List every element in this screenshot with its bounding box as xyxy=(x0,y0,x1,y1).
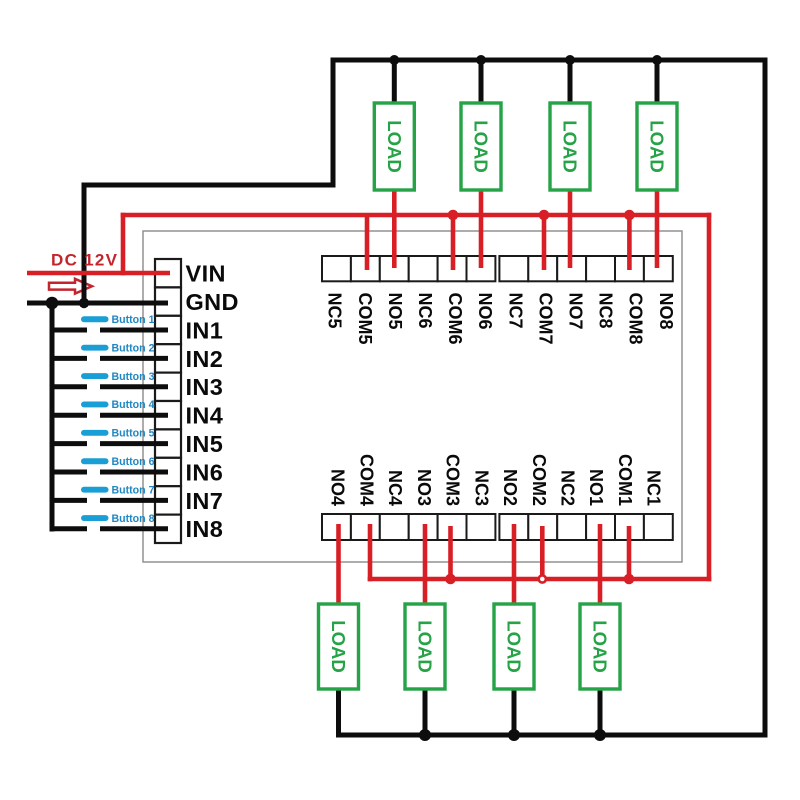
load box LOAD6 xyxy=(461,103,501,190)
svg-text:LOAD: LOAD xyxy=(384,120,405,172)
load box LOAD7 xyxy=(550,103,590,190)
svg-text:IN3: IN3 xyxy=(186,374,224,400)
svg-text:IN1: IN1 xyxy=(186,317,224,343)
svg-text:GND: GND xyxy=(186,289,239,315)
wire: button 8 left lead xyxy=(52,526,87,531)
push button 8 xyxy=(81,513,155,525)
wire: right side supply drop xyxy=(763,58,768,738)
wire: NO1 to LOAD xyxy=(598,524,603,605)
wire: button 2 lead to IN2 xyxy=(100,356,168,361)
svg-text:LOAD: LOAD xyxy=(471,120,492,172)
junction: bottom COM bus / COM2 (open) xyxy=(539,575,546,582)
push button 2 xyxy=(81,342,155,354)
junction: top bus / LOAD6 xyxy=(476,55,486,65)
svg-text:COM5: COM5 xyxy=(355,293,375,345)
pin labels VIN GND IN1-IN8 xyxy=(186,261,239,543)
svg-text:Button 7: Button 7 xyxy=(112,484,155,496)
push button 1 xyxy=(81,314,155,326)
wire: LOAD to NO5 xyxy=(392,190,397,268)
junction: top COM bus / COM6 xyxy=(448,210,459,221)
svg-text:COM3: COM3 xyxy=(443,454,463,506)
wire: button 5 lead to IN5 xyxy=(100,441,168,446)
junction: bottom bus / LOAD3 xyxy=(419,729,431,741)
svg-text:LOAD: LOAD xyxy=(504,620,525,672)
load box LOAD4 xyxy=(319,604,359,689)
wire: +12V lead to VIN xyxy=(27,271,170,276)
junction: top bus / LOAD8 xyxy=(652,55,662,65)
wire: supply stub to LOAD7 top xyxy=(568,60,573,104)
wire: button 4 lead to IN4 xyxy=(100,413,168,418)
wire: COM7 stub xyxy=(542,215,547,270)
wire: GND riser to top-left corner xyxy=(82,183,87,306)
svg-text:NC6: NC6 xyxy=(415,293,435,329)
wire: COM3 stub xyxy=(448,526,453,579)
wire: button 5 left lead xyxy=(52,441,87,446)
load box LOAD5 xyxy=(374,103,414,190)
wire: LOAD to NO7 xyxy=(568,190,573,268)
wire: button 2 left lead xyxy=(52,356,87,361)
wire: supply stub to LOAD5 top xyxy=(392,60,397,104)
svg-text:COM1: COM1 xyxy=(615,454,635,506)
svg-text:Button 6: Button 6 xyxy=(112,456,155,468)
svg-text:NC7: NC7 xyxy=(505,293,525,329)
load box LOAD3 xyxy=(405,604,445,689)
push button 5 xyxy=(81,428,155,440)
wire: COM5 stub xyxy=(365,215,370,270)
push button 4 xyxy=(81,399,155,411)
push button 3 xyxy=(81,371,155,383)
svg-text:NC1: NC1 xyxy=(644,470,664,506)
wire: supply stub to LOAD6 top xyxy=(479,60,484,104)
wire: riser to top NO bus xyxy=(331,58,336,188)
svg-text:Button 2: Button 2 xyxy=(112,342,155,354)
wire: button 1 lead to IN1 xyxy=(100,328,168,333)
svg-text:NC3: NC3 xyxy=(471,470,491,506)
wire: COM6 stub xyxy=(451,215,456,270)
wire: +12V riser xyxy=(121,213,126,276)
wire: button 8 lead to IN8 xyxy=(100,526,168,531)
wire: COM1 stub xyxy=(627,526,632,579)
svg-text:IN4: IN4 xyxy=(186,403,224,429)
top terminal labels NC5-NO8 xyxy=(325,293,676,345)
wire: bottom COM bus xyxy=(368,577,712,582)
junction: bottom COM bus / COM1 xyxy=(624,574,635,585)
svg-text:Button 4: Button 4 xyxy=(112,399,155,411)
junction: top bus / LOAD7 xyxy=(565,55,575,65)
wire: button 6 lead to IN6 xyxy=(100,470,168,475)
wire: button 7 lead to IN7 xyxy=(100,498,168,503)
wire: NO2 to LOAD xyxy=(512,524,517,605)
wire: supply stub to LOAD8 top xyxy=(655,60,660,104)
wire: COM8 stub xyxy=(627,215,632,270)
junction: top COM bus / COM8 xyxy=(624,210,635,221)
svg-text:COM6: COM6 xyxy=(445,293,465,345)
svg-text:NC4: NC4 xyxy=(385,470,405,506)
svg-text:NO7: NO7 xyxy=(566,293,586,330)
load box LOAD8 xyxy=(637,103,677,190)
svg-text:IN5: IN5 xyxy=(186,431,224,457)
wire: NO4 to LOAD xyxy=(336,524,341,605)
svg-text:LOAD: LOAD xyxy=(415,620,436,672)
junction: bottom bus / LOAD2 xyxy=(508,729,520,741)
wire: button 6 left lead xyxy=(52,470,87,475)
wire: button 3 left lead xyxy=(52,384,87,389)
top relay terminal strip (NC5-NO8 screw terminals) xyxy=(322,256,673,281)
wire: LOAD3 bottom return stub xyxy=(423,689,428,737)
junction: GND / supply riser xyxy=(79,298,89,308)
svg-text:NO8: NO8 xyxy=(656,293,676,330)
wire: GND lead xyxy=(27,301,168,306)
bottom relay terminal strip (NO4-NC1 screw terminals) xyxy=(322,514,673,540)
svg-text:LOAD: LOAD xyxy=(560,120,581,172)
wire: top NO supply bus xyxy=(331,58,768,63)
load box LOAD1 xyxy=(580,604,620,689)
svg-text:NO4: NO4 xyxy=(328,469,348,506)
svg-text:IN8: IN8 xyxy=(186,516,224,542)
svg-text:Button 1: Button 1 xyxy=(112,314,155,326)
wire: button 3 lead to IN3 xyxy=(100,384,168,389)
junction: bottom COM bus / COM3 xyxy=(445,574,456,585)
bottom terminal labels NO4-NC1 xyxy=(328,454,664,506)
svg-text:Button 5: Button 5 xyxy=(112,428,155,440)
wire: LOAD1 bottom return stub xyxy=(598,689,603,737)
svg-text:COM7: COM7 xyxy=(535,293,555,345)
svg-text:DC 12V: DC 12V xyxy=(51,251,118,270)
wire: COM4 stub xyxy=(368,524,373,581)
svg-text:COM4: COM4 xyxy=(356,454,376,506)
svg-text:NC2: NC2 xyxy=(558,470,578,506)
wire: button 1 left lead xyxy=(52,328,87,333)
push button 6 xyxy=(81,456,155,468)
svg-text:VIN: VIN xyxy=(186,261,226,287)
svg-text:LOAD: LOAD xyxy=(647,120,668,172)
svg-text:NO5: NO5 xyxy=(385,293,405,330)
wire: NO3 to LOAD xyxy=(423,524,428,605)
junction: top bus / LOAD5 xyxy=(389,55,399,65)
svg-text:Button 3: Button 3 xyxy=(112,371,155,383)
svg-text:NO1: NO1 xyxy=(586,469,606,506)
push button 7 xyxy=(81,484,155,496)
DC 12V input arrow symbol xyxy=(49,279,92,294)
wire: button 4 left lead xyxy=(52,413,87,418)
svg-text:NO6: NO6 xyxy=(475,293,495,330)
wire: button common bus xyxy=(50,301,55,532)
wire: button 7 left lead xyxy=(52,498,87,503)
svg-text:COM2: COM2 xyxy=(529,454,549,506)
junction: bottom bus / LOAD1 xyxy=(594,729,606,741)
wire: LOAD2 bottom return stub xyxy=(512,689,517,737)
wire: upper-left horizontal run xyxy=(82,183,336,188)
svg-text:LOAD: LOAD xyxy=(328,620,349,672)
svg-text:COM8: COM8 xyxy=(626,293,646,345)
wire: LOAD to NO8 xyxy=(655,190,660,268)
svg-text:NC8: NC8 xyxy=(596,293,616,329)
wire: COM2 stub xyxy=(540,526,545,579)
svg-text:NC5: NC5 xyxy=(325,293,345,329)
svg-text:Button 8: Button 8 xyxy=(112,513,155,525)
wire: bottom NO supply bus xyxy=(336,733,768,738)
load box LOAD2 xyxy=(494,604,534,689)
svg-text:IN2: IN2 xyxy=(186,346,224,372)
wire: LOAD4-bottom return stub xyxy=(336,689,341,738)
svg-text:IN6: IN6 xyxy=(186,459,224,485)
svg-text:NO3: NO3 xyxy=(414,469,434,506)
junction: GND / button bus xyxy=(46,297,59,310)
svg-text:NO2: NO2 xyxy=(500,469,520,506)
left input pin header (VIN GND IN1-IN8) xyxy=(155,259,181,543)
wire: LOAD to NO6 xyxy=(479,190,484,268)
svg-text:LOAD: LOAD xyxy=(590,620,611,672)
junction: top COM bus / COM7 xyxy=(539,210,550,221)
svg-text:IN7: IN7 xyxy=(186,488,224,514)
relay module board outline xyxy=(143,231,682,562)
wire: right COM drop xyxy=(707,213,712,582)
wire: top COM bus xyxy=(121,213,712,218)
